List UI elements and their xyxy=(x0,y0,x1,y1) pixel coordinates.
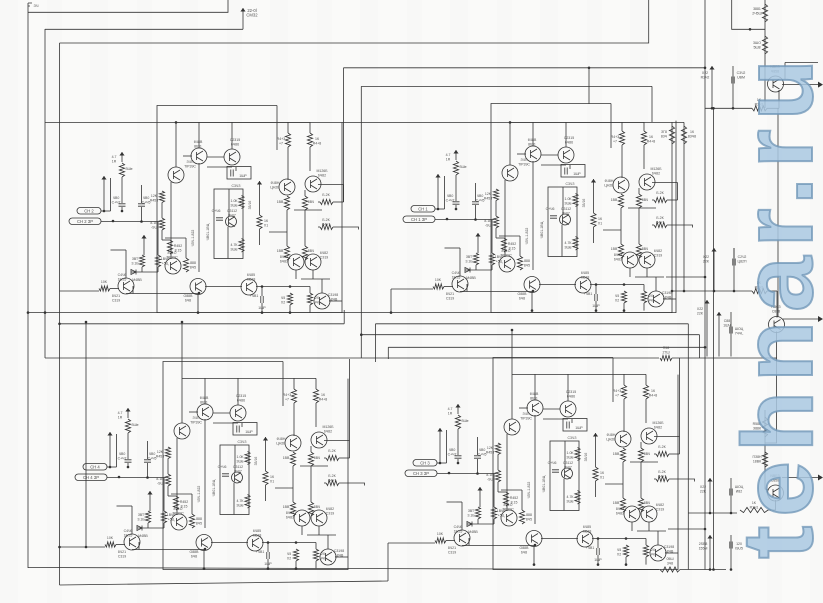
resistor CH1 R446 4.7/1W xyxy=(119,163,124,177)
supply arrow bottom a xyxy=(707,478,712,488)
svg-text:8.15: 8.15 xyxy=(511,500,518,504)
wire CH3 r458 up xyxy=(191,494,193,514)
diode CH4 D402 xyxy=(467,522,472,527)
wire CH4 r448 dn xyxy=(645,399,647,423)
svg-text:ЦН2Б: ЦН2Б xyxy=(606,437,616,441)
svg-text:12K: 12K xyxy=(487,446,494,450)
wire top bus H2 xyxy=(45,28,243,30)
junction xyxy=(175,121,178,124)
svg-text:З.1Б: З.1Б xyxy=(131,261,139,265)
label 1.0К xyxy=(236,455,244,463)
capacitor CH2 C46b xyxy=(550,216,557,218)
wire CH3 r449 out xyxy=(339,483,365,486)
wire CH3 c45 up xyxy=(147,441,149,459)
svg-text:Ч5Ч-1-822: Ч5Ч-1-822 xyxy=(191,230,195,247)
wire CH3 lm bus xyxy=(262,542,316,544)
resistor CH2 R446 8.2K xyxy=(654,197,667,202)
wire CH3 input rail up xyxy=(116,434,118,467)
svg-text:Б.2К: Б.2К xyxy=(656,216,664,220)
wire CH3 center up xyxy=(234,445,236,472)
label М126Б xyxy=(322,425,334,433)
wire CH4 r456 drop xyxy=(497,482,499,492)
wire CH3 rail from bus xyxy=(85,322,87,547)
wire CH3 r456 drop xyxy=(167,486,169,496)
wire CH4 c444 dn xyxy=(597,555,599,565)
label 1К xyxy=(270,475,275,483)
wire CH1 c444 dn xyxy=(261,303,263,313)
wire CH3 r446 out xyxy=(339,457,350,459)
junction xyxy=(121,210,124,213)
label C3Ч2 xyxy=(737,71,746,79)
wire CH4 c45 stem xyxy=(477,459,479,474)
resistor R341 1K xyxy=(752,106,767,111)
capacitor C89 100u xyxy=(730,327,732,334)
transistor CH4 Q632 C2315 xyxy=(560,401,576,417)
resistor CH1 R446 8.2K xyxy=(320,199,333,204)
svg-text:R4+3: R4+3 xyxy=(613,389,622,393)
junction H5 xyxy=(588,67,591,70)
svg-text:С4Ч6: С4Ч6 xyxy=(454,525,463,529)
wire CH1 r456 link xyxy=(161,203,163,219)
junction V2 L1 xyxy=(44,311,47,314)
wire CH3 c46 link xyxy=(213,422,238,424)
wire CH1 lm link xyxy=(205,286,242,288)
svg-text:C319: C319 xyxy=(118,554,126,558)
wire CH3 r448 dn xyxy=(315,403,317,427)
connector CH3 input A xyxy=(83,464,107,471)
wire CH4 drv link xyxy=(498,491,506,493)
wire CH4 rq rail b xyxy=(640,462,642,498)
wire CH1 drv h xyxy=(165,237,186,239)
svg-text:1К: 1К xyxy=(600,471,605,475)
svg-text:С2315: С2315 xyxy=(236,394,246,398)
node output arrow CH3 xyxy=(818,475,823,481)
transistor CH4 Q483 xyxy=(624,506,640,522)
resistor CH3 R10K input xyxy=(105,542,116,547)
label 4.7К xyxy=(566,495,574,503)
wire CH4 lm bus xyxy=(592,538,646,540)
transistor CH2 Q888 xyxy=(524,277,540,293)
wire CH4 aux stem xyxy=(439,438,441,463)
transistor CH2 Q631 6488 xyxy=(525,146,541,162)
svg-text:R4+3: R4+3 xyxy=(611,135,620,139)
junction xyxy=(730,512,733,515)
svg-text:8Ч21: 8Ч21 xyxy=(448,546,456,550)
wire CH1 q483 dn xyxy=(295,270,297,279)
label Ч5 xyxy=(617,548,621,556)
svg-text:8.1Б: 8.1Б xyxy=(486,473,494,477)
svg-text:Б.2К: Б.2К xyxy=(658,445,666,449)
wire CH3 box to quad xyxy=(275,487,293,489)
wire CH1 r443 dn xyxy=(287,147,289,180)
transistor CH3 Q482 A1266 xyxy=(311,432,327,448)
label 6Ч82 xyxy=(654,249,663,257)
svg-text:33/16: 33/16 xyxy=(582,199,586,208)
svg-text:С3112: С3112 xyxy=(233,465,243,469)
svg-text:Ч5Ч-1-822: Ч5Ч-1-822 xyxy=(525,228,529,245)
wire CH3 rq bot link xyxy=(307,534,336,536)
svg-text:ЧВ0: ЧВ0 xyxy=(447,194,454,198)
label 1ВЧ0 xyxy=(497,509,505,517)
label 1ВЧ0 xyxy=(495,255,503,263)
wire CH1 rq rail b xyxy=(304,210,306,246)
svg-text:ТIР39С: ТIР39С xyxy=(502,507,514,511)
wire CH1 q632 up xyxy=(231,122,233,149)
transistor CH3 Q483 xyxy=(294,510,310,526)
junction xyxy=(623,309,626,312)
junction xyxy=(533,563,536,566)
resistor CH3 R401 xyxy=(145,511,150,523)
wire CH4 c33 stem xyxy=(595,443,597,467)
resistor CH2 R100a xyxy=(618,194,623,208)
svg-text:10K: 10K xyxy=(437,532,444,536)
svg-text:С+Ч6: С+Ч6 xyxy=(218,465,227,469)
svg-text:CH 4: CH 4 xyxy=(90,465,100,470)
transistor CH1 Q421 2SC3198 xyxy=(118,278,134,294)
wire CH2 q482 dn xyxy=(638,188,640,194)
svg-text:8631: 8631 xyxy=(200,400,208,404)
wire CH4 q631 down rail xyxy=(534,415,536,524)
svg-text:С3198: С3198 xyxy=(664,545,674,549)
svg-text:ЦН2Б: ЦН2Б xyxy=(270,185,280,189)
svg-text:8ЗЧ8: 8ЗЧ8 xyxy=(688,134,696,138)
capacitor CH3 C46b xyxy=(222,474,229,476)
wire CH2 driver rail xyxy=(504,180,506,257)
wire CH1 input return xyxy=(60,290,100,292)
wire CH3 d401 stem xyxy=(149,501,151,511)
supply arrow CH3 aux xyxy=(107,432,112,442)
svg-text:3ШО: 3ШО xyxy=(753,41,761,45)
junction xyxy=(146,476,149,479)
wire CH2 c444 up xyxy=(595,285,597,295)
label М126Б xyxy=(316,169,328,177)
wire CH3 r456 link xyxy=(167,459,169,475)
wire CH1 r450 up xyxy=(309,287,311,294)
resistor R58Б 388К xyxy=(762,417,767,437)
svg-text:С4Ч6: С4Ч6 xyxy=(452,271,461,275)
wire to Q352 xyxy=(767,290,777,292)
resistor CH2 R451 xyxy=(621,291,626,303)
supply arrow CH1 aux xyxy=(101,176,106,186)
wire CH1 rq top link xyxy=(294,209,322,211)
svg-text:R3Ч2: R3Ч2 xyxy=(701,75,710,79)
wire CH2 q483 dn xyxy=(629,268,631,277)
svg-text:8ВЧ: 8ВЧ xyxy=(308,200,315,204)
svg-text:X22: X22 xyxy=(697,307,703,311)
wire CH2 c46 link xyxy=(541,164,566,166)
wire CH4 out riser xyxy=(679,358,681,437)
label ЗЧП xyxy=(518,158,530,166)
capacitor CH1 C45 xyxy=(138,204,145,206)
resistor CH1 R1.0K xyxy=(239,196,244,209)
svg-text:6Ч8З: 6Ч8З xyxy=(616,511,624,515)
svg-text:1К: 1К xyxy=(598,217,603,221)
svg-text:33/16: 33/16 xyxy=(254,457,258,466)
label С3112 xyxy=(563,461,573,469)
label R58Б xyxy=(753,422,762,430)
wire to Q351 xyxy=(767,107,779,109)
wire CH2 center up xyxy=(562,187,564,214)
junction xyxy=(85,321,88,324)
svg-text:6Ч8: 6Ч8 xyxy=(521,550,527,554)
resistor CH3 R458 xyxy=(189,514,194,528)
svg-text:С3112: С3112 xyxy=(563,461,573,465)
capacitor CH4 C46b xyxy=(552,470,559,472)
capacitor C91 xyxy=(730,542,732,549)
svg-text:1.0К: 1.0К xyxy=(237,455,245,459)
junction xyxy=(713,290,716,293)
svg-text:1ВВ: 1ВВ xyxy=(611,198,618,202)
svg-text:18/25: 18/25 xyxy=(452,275,461,279)
svg-text:155М: 155М xyxy=(699,546,708,550)
svg-text:27Ш: 27Ш xyxy=(662,350,669,354)
label 2Х xyxy=(314,296,321,304)
resistor CH1 R452 xyxy=(167,240,172,254)
label Б.2К xyxy=(322,218,331,226)
svg-text:Ч5Ч-1-822: Ч5Ч-1-822 xyxy=(197,486,201,503)
wire CH3 r448 stub xyxy=(315,378,317,389)
svg-text:ЧВ01-1ВЦ: ЧВ01-1ВЦ xyxy=(540,221,544,238)
svg-text:2Ч5Ш: 2Ч5Ш xyxy=(752,11,761,15)
wire V mid rail x343 xyxy=(343,68,345,202)
wire CH3 q483 dn xyxy=(301,526,303,535)
svg-text:М126Б: М126Б xyxy=(650,167,662,171)
resistor CH4 R453 12K xyxy=(495,443,500,455)
wire CH4 r450 up xyxy=(645,539,647,546)
svg-text:1ШР: 1ШР xyxy=(239,174,247,178)
transistor CH3 Q484 xyxy=(311,510,327,526)
resistor CH4 R456 xyxy=(495,470,500,482)
svg-text:X22: X22 xyxy=(700,485,706,489)
wire CH1 r443 stub xyxy=(287,122,289,133)
svg-text:2Х: 2Х xyxy=(315,296,320,300)
wire CH2 lm link xyxy=(539,284,576,286)
transistor CH2 Q411 TIP39C xyxy=(502,165,518,181)
svg-text:33/16: 33/16 xyxy=(584,453,588,462)
wire CH2 lm bus xyxy=(590,284,644,286)
resistor CH1 R1K X1 xyxy=(257,215,262,229)
svg-text:ЗВТ: ЗВТ xyxy=(138,513,145,517)
wire CH2 inner bias box xyxy=(548,187,577,257)
junction xyxy=(534,544,537,547)
wire CH1 input A lead xyxy=(101,210,111,212)
svg-text:1.0К: 1.0К xyxy=(231,199,239,203)
wire CH2 drv h xyxy=(499,235,520,237)
svg-text:М818: М818 xyxy=(583,529,592,533)
label ЗЧП xyxy=(190,416,202,424)
svg-text:ТIР39С: ТIР39С xyxy=(166,255,178,259)
wire CH2 emitter bus xyxy=(460,291,533,293)
svg-text:З.1Б: З.1Б xyxy=(465,259,473,263)
wire CH3 rq top link xyxy=(300,465,328,467)
svg-text:ЗВТ: ЗВТ xyxy=(466,255,473,259)
wire output CH3 to edge xyxy=(782,477,818,479)
wire CH2 r450 dn xyxy=(643,303,645,311)
label 8.1Б xyxy=(484,219,492,227)
svg-text:ЗГ8: ЗГ8 xyxy=(661,130,667,134)
label С2315 xyxy=(566,390,576,398)
label 1К xyxy=(264,219,269,227)
svg-text:4.7К: 4.7К xyxy=(565,241,573,245)
wire CH3 r402 drop xyxy=(163,523,165,528)
transistor CH2 Q421 2SC3198 xyxy=(452,276,468,292)
svg-text:С2315: С2315 xyxy=(230,138,240,142)
transistor CH1 Q631 6488 xyxy=(191,148,207,164)
transistor CH3 Q481 A1266 xyxy=(285,435,301,451)
resistor CH3 R448 1K xyxy=(313,389,318,403)
svg-text:12K: 12K xyxy=(157,450,164,454)
svg-text:8Ч21: 8Ч21 xyxy=(112,294,120,298)
label С2315 xyxy=(236,394,246,402)
svg-text:CM32: CM32 xyxy=(246,12,258,17)
node output arrow CH1 xyxy=(818,82,823,88)
svg-text:8631: 8631 xyxy=(528,142,536,146)
node output arrow CH2 xyxy=(818,316,823,322)
label 8.1Б xyxy=(486,473,494,481)
label С3112 xyxy=(561,207,571,215)
svg-text:1ВВ: 1ВВ xyxy=(277,200,284,204)
label Б.2К xyxy=(328,474,337,482)
junction xyxy=(204,548,207,551)
wire CH2 stage boundary box xyxy=(491,104,676,313)
wire CH3 input A lead xyxy=(107,466,117,468)
label 6Ч8Н xyxy=(276,437,286,445)
resistor CH2 R644b xyxy=(636,244,641,258)
resistor CH2 R448 1K xyxy=(641,131,646,145)
wire CH4 q483 dn xyxy=(631,522,633,531)
wire CH4 c47 stem xyxy=(457,459,459,463)
label 1К xyxy=(649,389,658,397)
svg-text:6Ч85: 6Ч85 xyxy=(581,271,589,275)
wire CH4 rq top link xyxy=(630,461,658,463)
label М126Б xyxy=(650,167,662,175)
supply arrow CH4 aux xyxy=(437,428,442,438)
wire bottom bus B6 xyxy=(60,581,389,585)
svg-text:6Ч82: 6Ч82 xyxy=(652,171,660,175)
svg-text:ЗШе: ЗШе xyxy=(131,423,138,427)
transistor CH2 Q483 xyxy=(622,252,638,268)
svg-text:С3ЧЗ: С3ЧЗ xyxy=(566,182,575,186)
resistor CH2 R452 xyxy=(501,238,506,252)
svg-text:+ЧВ1: +ЧВ1 xyxy=(256,550,265,554)
wire CH3 c46 stub xyxy=(241,423,243,427)
svg-text:X22: X22 xyxy=(702,71,708,75)
wire CH2 q484 dn xyxy=(646,268,648,277)
svg-text:ЧЧ8: ЧЧ8 xyxy=(650,552,657,556)
svg-text:888: 888 xyxy=(196,517,202,521)
label 1.0К xyxy=(564,197,572,205)
transistor Q352 2SB858 power xyxy=(769,317,785,333)
wire CH1 r446 in xyxy=(318,201,320,203)
wire CH2 C46 box xyxy=(561,165,585,178)
wire CH4 r448 stub xyxy=(645,374,647,385)
svg-text:8Ч5: 8Ч5 xyxy=(524,263,530,267)
svg-text:8631: 8631 xyxy=(194,144,202,148)
label П58 xyxy=(662,346,669,354)
svg-text:С2315: С2315 xyxy=(564,136,574,140)
wire mid Q feed xyxy=(672,290,752,292)
svg-text:С+Ч7: С+Ч7 xyxy=(446,198,455,202)
label 8Ч21 xyxy=(446,292,454,300)
junction xyxy=(439,462,442,465)
label 6Ч8В xyxy=(528,138,537,146)
label R4+3 xyxy=(613,389,622,397)
svg-text:ТIР39С: ТIР39С xyxy=(172,511,184,515)
wire CH1 bus to Q411 xyxy=(175,122,177,167)
svg-text:С3112: С3112 xyxy=(227,209,237,213)
junction xyxy=(85,546,88,549)
wire CH3 C46 box xyxy=(233,423,257,436)
resistor CH4 R458 xyxy=(519,510,524,524)
wire CH3 drv link xyxy=(168,495,176,497)
svg-text:R4+7: R4+7 xyxy=(656,220,665,224)
resistor CH2 R401 xyxy=(473,253,478,265)
wire CH3 r443 dn xyxy=(293,403,295,436)
label О88В xyxy=(190,550,200,558)
wire CH4 r443 stub xyxy=(623,374,625,385)
wire CH2 input rail up xyxy=(444,176,446,209)
connector CH1 input B xyxy=(69,218,101,225)
svg-text:СЗ19: СЗ19 xyxy=(320,255,329,259)
wire CH1 r451 dn xyxy=(289,305,291,313)
wire CH4 c46 stub xyxy=(571,419,573,423)
label 1.0К xyxy=(566,451,574,459)
label 1K xyxy=(755,98,764,106)
wire CH1 to Q421 xyxy=(110,288,119,290)
wire CH4 r446 riser xyxy=(679,437,681,455)
svg-text:ЧВ01-1ВЦ: ЧВ01-1ВЦ xyxy=(212,479,216,496)
wire CH2 pair link xyxy=(541,154,558,156)
transistor CH2 Q484 xyxy=(639,252,655,268)
label X22 xyxy=(700,485,707,493)
wire CH4 q485 up xyxy=(657,531,659,545)
wire bus B4 xyxy=(45,121,684,123)
wire Q351 to Q352 rail xyxy=(777,108,779,317)
label С3198 xyxy=(664,545,674,553)
wire CH4 rq bot link xyxy=(637,530,666,532)
svg-text:М126Б: М126Б xyxy=(316,169,328,173)
transistor CH1 Q482 A1266 xyxy=(305,176,321,192)
wire top bus H3 xyxy=(60,0,649,43)
wire mid bus B5 xyxy=(45,357,659,359)
junction xyxy=(437,208,440,211)
wire CH4 stage boundary box xyxy=(493,358,678,570)
junction B4 at feed xyxy=(683,290,686,293)
transistor CH4 Q112 C3112 xyxy=(562,468,573,479)
wire CH1 q482 dn xyxy=(304,190,306,196)
wire CH2 aux stem xyxy=(437,184,439,209)
svg-text:ЗШе: ЗШе xyxy=(566,499,573,503)
wire CH1 input rail up xyxy=(110,178,112,211)
wire CH4 r451 dn xyxy=(625,557,627,565)
transistor CH2 Q485 C3198 xyxy=(648,291,664,307)
svg-text:М818: М818 xyxy=(247,277,256,281)
transistor CH1 Q484 xyxy=(305,254,321,270)
svg-text:Х2: Х2 xyxy=(617,552,621,556)
svg-text:8631: 8631 xyxy=(530,396,538,400)
label X22 xyxy=(703,255,710,263)
transistor CH3 Q888 xyxy=(196,535,212,551)
transistor CH3 Q631 6488 xyxy=(197,404,213,420)
resistor CH3 R4.7K xyxy=(245,495,250,509)
wire CH2 r443 stub xyxy=(621,122,623,131)
wire CH3 q632 up xyxy=(237,378,239,405)
transistor CH2 Q632 C2315 xyxy=(558,147,574,163)
wire CH2 c47 stem xyxy=(455,205,457,209)
svg-text:R452: R452 xyxy=(174,244,182,248)
wire CH3 r450 dn xyxy=(315,561,317,569)
label Б.2К xyxy=(656,216,665,224)
